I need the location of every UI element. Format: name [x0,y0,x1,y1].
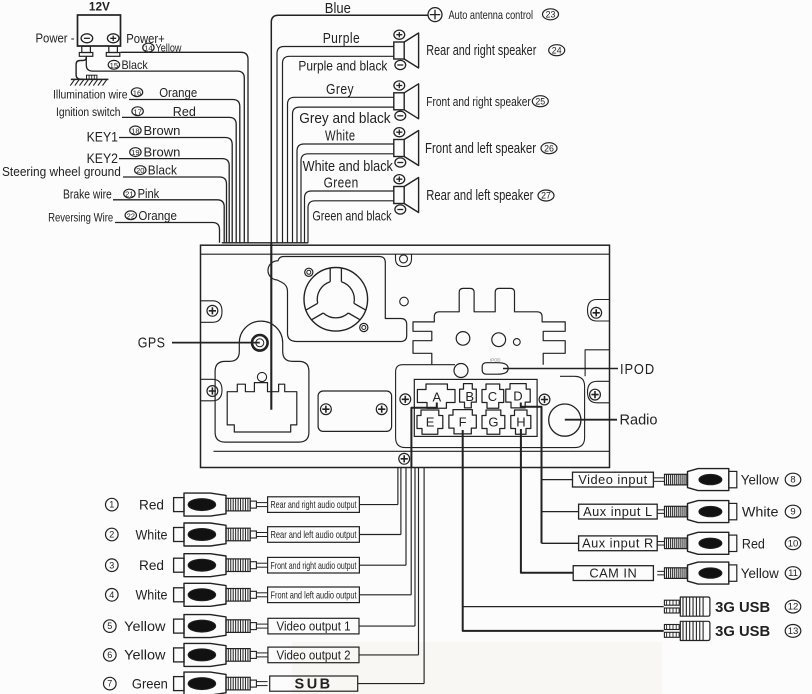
wire bundle clamp [222,242,308,244]
svg-text:23: 23 [546,9,556,19]
heatsink hole 1 [456,332,470,346]
circled 10 [785,537,801,550]
svg-text:Brown: Brown [144,124,181,138]
RCA plug row 10 [657,541,664,543]
circled 27 [538,190,554,201]
svg-text:26: 26 [544,143,554,153]
plug B [460,384,477,408]
circled 9 [785,505,801,518]
svg-text:24: 24 [552,45,562,55]
GPS bracket outline [215,321,309,442]
svg-text:Reversing Wire: Reversing Wire [48,210,113,224]
circled 6 [104,649,117,662]
screw left 1 [207,305,218,316]
wire output row 2 [359,534,401,536]
middle plate [318,391,392,431]
circled 5 [104,620,117,633]
svg-text:3G USB: 3G USB [715,624,770,640]
svg-text:Red: Red [139,497,164,512]
svg-text:Aux input R: Aux input R [582,536,654,551]
GPS antenna jack [252,335,268,351]
svg-text:H: H [516,415,525,430]
wire 15 black [86,56,244,243]
svg-text:Red: Red [173,105,196,119]
wire D to aux input L [542,511,579,513]
wire battery minus to ground [76,56,86,79]
box Video output 2 [268,647,359,663]
circled 15 [108,60,119,69]
GPS label [172,342,260,344]
svg-text:GPS: GPS [138,335,166,352]
svg-text:KEY1: KEY1 [87,129,119,145]
panel right step [585,350,609,377]
circled 17 [132,107,143,116]
screw block left [400,394,411,405]
svg-text:Blue: Blue [325,1,351,17]
svg-text:D: D [513,388,522,403]
wire white [297,144,394,243]
left tab 1 [201,301,223,323]
wire 16 orange [129,100,240,243]
svg-text:Brown: Brown [144,146,181,160]
wire white and black [301,154,394,243]
RCA plug row 5 [174,619,184,633]
svg-text:Rear and left audio output: Rear and left audio output [271,530,357,541]
svg-text:Black: Black [122,58,148,72]
circled 25 [532,96,548,107]
svg-text:Red: Red [139,558,164,573]
wire from plug H to CAM IN [521,429,573,573]
svg-text:Yellow: Yellow [156,42,182,54]
svg-text:White: White [136,588,168,603]
radio circle [549,404,581,436]
connector panel outline [396,365,585,448]
box CAM IN [573,566,653,581]
svg-text:SUB: SUB [295,676,333,692]
circled 21 [124,189,135,198]
wire green [305,191,394,243]
RCA plug row 4 [174,588,184,602]
battery terminal stems [82,46,91,52]
circled 14 [143,43,154,52]
RCA plug row 6 [174,648,184,662]
hole left of ipod connector [454,364,468,378]
circled 7 [104,677,117,690]
heatsink hole 3 [513,339,520,346]
svg-text:1: 1 [109,500,114,510]
plug C [482,384,504,408]
circled 16 [131,88,142,97]
RCA plug row 3 [174,558,184,572]
wire green and black [308,201,394,243]
svg-text:25: 25 [535,96,545,106]
left tab 2 [201,379,223,401]
circled 22 [125,211,136,220]
wire output row 6 [359,654,419,656]
circled 26 [541,143,557,154]
screw plate right [376,404,387,415]
battery 12V [78,15,121,46]
chassis bottom inner line [214,450,610,452]
circled 1 [106,498,119,511]
GPS antenna lead (blue wire continues) [270,243,272,410]
svg-text:Rear and right speaker: Rear and right speaker [426,43,536,59]
svg-text:A: A [432,389,441,404]
svg-text:Rear and right audio output: Rear and right audio output [271,500,357,511]
speaker icon 24 rear right [394,42,404,59]
svg-text:Steering wheel ground: Steering wheel ground [2,164,121,179]
svg-text:F: F [459,414,467,429]
svg-text:Front and right audio output: Front and right audio output [271,561,357,572]
svg-text:Pink: Pink [138,187,160,201]
head unit chassis [201,245,610,467]
speaker icon 27 rear left [394,187,404,204]
USB plug row 13 [664,625,679,630]
speaker icon 25 front right [394,93,404,110]
wire output row 5 [359,625,415,627]
wire from plug A [411,403,436,468]
svg-text:IPOD: IPOD [490,357,501,362]
wire 22 orange [115,223,220,243]
box Video input [573,472,654,487]
wire D to video input [542,479,573,481]
svg-text:Grey: Grey [326,81,354,98]
heatsink hole 2 [492,333,506,347]
RCA plug row 8 [653,477,664,479]
RCA plug row 1 [174,498,184,512]
circled 24 [549,45,565,56]
svg-text:E: E [426,415,435,430]
svg-text:G: G [488,415,498,430]
wire 18 brown [119,138,232,243]
wire output row 7 [358,683,424,685]
right tab 2 [588,381,610,403]
fan blade channels [306,268,366,320]
box Front and right audio output [268,557,360,573]
svg-text:Orange: Orange [159,86,197,100]
speaker icon 26 front left [394,140,404,157]
radio label [565,419,617,421]
IPOD label [503,368,618,370]
wire 14 yellow power+ [121,52,249,243]
screw block right [539,394,550,405]
svg-text:Brake wire: Brake wire [63,188,112,202]
box SUB [270,676,358,691]
svg-text:Orange: Orange [138,209,177,223]
wire F branch to 3G USB 12 [463,606,664,608]
right tab 1 [588,300,610,322]
wire 17 red [122,117,236,242]
svg-text:C: C [488,389,497,404]
svg-text:22: 22 [127,211,135,220]
svg-text:Rear and left speaker: Rear and left speaker [426,188,533,204]
svg-text:Green: Green [324,175,359,192]
screw right 1 [591,307,602,318]
RCA plug row 11 [657,570,664,572]
chassis top inner line [201,253,610,255]
svg-text:Yellow: Yellow [124,648,165,663]
svg-text:16: 16 [133,88,141,97]
wire blue antenna [271,15,427,243]
fan [304,268,368,332]
plug H [511,410,531,434]
svg-text:11: 11 [788,568,798,579]
screw left 2 [207,386,218,397]
top mount tab [396,254,412,266]
svg-text:CAM IN: CAM IN [589,566,637,581]
svg-text:B: B [465,389,474,404]
svg-text:IPOD: IPOD [620,362,655,378]
circled 23 [543,9,559,20]
wire output row 3 [359,564,406,566]
USB plug row 12 [664,600,679,605]
wire grey and black [293,107,394,243]
svg-text:14: 14 [144,44,152,53]
svg-text:Yellow: Yellow [741,566,779,581]
wire output row 1 [359,504,398,506]
heatsink shield [413,288,565,364]
svg-text:Purple and black: Purple and black [298,58,388,74]
circled 2 [106,528,119,541]
antenna plus symbol [428,8,442,22]
svg-text:White: White [325,128,356,145]
svg-text:10: 10 [788,538,799,549]
wire grey [288,97,394,243]
svg-text:8: 8 [790,475,795,486]
svg-text:5: 5 [107,621,112,631]
output harness ribbon [397,468,399,505]
circled 11 [785,567,801,580]
svg-text:White: White [136,527,168,542]
box Video output 1 [268,618,359,634]
svg-text:3: 3 [109,560,114,570]
svg-text:15: 15 [110,61,118,70]
svg-text:Yellow: Yellow [741,473,779,488]
svg-text:4: 4 [109,590,114,600]
svg-text:Power -: Power - [36,32,75,46]
svg-text:Purple: Purple [323,30,360,47]
IPOD connector [482,363,508,375]
fan hub ring [317,282,354,318]
wire 19 brown [119,159,229,243]
circled 3 [106,559,119,572]
RCA plug row 9 [657,509,664,511]
svg-text:Green and black: Green and black [312,207,392,223]
wire 21 pink [113,200,224,243]
battery plus terminal [107,34,119,43]
circled 8 [785,473,801,486]
svg-text:21: 21 [125,190,133,199]
plug D [506,384,530,408]
wire D to aux input R [542,542,579,544]
svg-text:19: 19 [131,148,139,157]
circled 13 [785,625,801,638]
connector block A-H [414,379,537,436]
svg-text:Radio: Radio [620,412,658,429]
svg-text:Red: Red [742,536,765,551]
GPS connector [227,383,297,432]
svg-text:Illumination wire: Illumination wire [53,87,128,101]
circled 4 [106,589,119,602]
RCA plug row 7 [174,677,184,691]
svg-text:Ignition switch: Ignition switch [56,105,121,119]
plug F [449,410,476,434]
wire from plug D [521,403,542,544]
svg-text:2: 2 [109,530,114,540]
svg-text:Yellow: Yellow [124,619,165,634]
svg-text:Front and right speaker: Front and right speaker [426,94,531,109]
screw right 2 [590,389,601,400]
wire from plug F to 3G USB [463,430,664,631]
wire output row 4 [359,594,411,596]
wire purple and black [283,56,394,243]
top tab hole [400,255,408,263]
plug A [417,384,455,408]
screw plate left [321,404,332,415]
plug G [482,410,505,434]
svg-text:Black: Black [148,164,178,178]
svg-text:12: 12 [788,602,799,613]
hole above GPS connector [257,372,266,381]
wire purple [277,47,394,243]
svg-text:Aux input L: Aux input L [583,504,653,519]
wire 20 black [123,177,227,243]
svg-text:3G USB: 3G USB [715,600,770,616]
svg-text:Auto antenna control: Auto antenna control [449,8,534,22]
svg-text:Video output 2: Video output 2 [277,647,351,662]
box Aux input R [579,536,658,551]
svg-text:9: 9 [790,507,795,518]
svg-text:Front and left speaker: Front and left speaker [425,141,536,157]
RCA plug row 2 [174,528,184,542]
fan screw rings [305,268,313,276]
svg-text:White: White [742,505,779,520]
svg-text:7: 7 [107,679,112,689]
circled 19 [130,148,141,157]
plug E [417,410,443,434]
circled 12 [785,600,801,613]
svg-text:6: 6 [107,650,112,660]
svg-text:17: 17 [133,107,141,116]
svg-text:18: 18 [131,127,139,136]
panel hole right of fan plate [400,297,409,306]
svg-text:Green: Green [132,676,168,691]
box Rear and right audio output [268,497,360,513]
screw bottom left [399,453,410,464]
svg-text:Grey and black: Grey and black [299,110,391,127]
svg-text:20: 20 [136,166,144,175]
circled 18 [130,126,141,135]
box Rear and left audio output [268,527,360,543]
svg-text:13: 13 [788,626,799,637]
svg-text:27: 27 [541,191,551,201]
box Aux input L [579,504,658,519]
circled 20 [135,166,146,175]
battery minus terminal [81,34,93,43]
svg-text:12V: 12V [89,0,110,14]
svg-text:Video output 1: Video output 1 [277,619,351,634]
ground [71,78,109,80]
svg-text:Video input: Video input [578,472,647,487]
ground clamp [87,75,97,79]
fan enclosure plate [268,257,407,342]
svg-text:White and black: White and black [303,158,394,175]
svg-text:Front and left audio output: Front and left audio output [271,590,357,601]
box Front and left audio output [268,587,360,603]
